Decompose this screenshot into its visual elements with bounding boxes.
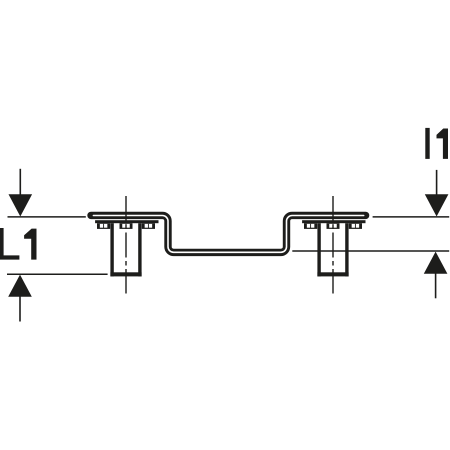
label L1 xyxy=(0,228,19,260)
dimension line upper right xyxy=(373,216,450,218)
left centerline xyxy=(125,196,127,294)
dimension line lower right xyxy=(292,250,449,252)
arrow upper right (down) xyxy=(436,170,438,196)
left connector tab right xyxy=(142,223,155,229)
left connector tab left xyxy=(97,223,110,229)
right connector tab centre xyxy=(327,223,340,229)
dimension line lower left xyxy=(7,273,108,275)
arrow lower right (up) xyxy=(435,272,437,299)
right connector tab left xyxy=(304,223,317,229)
right centerline xyxy=(332,196,334,294)
arrow upper left (down) xyxy=(19,169,21,196)
dimension line upper left xyxy=(8,216,86,218)
left connector flange xyxy=(95,220,158,223)
rail (bent sheet-metal strip) outer xyxy=(91,215,366,252)
label I1 xyxy=(425,128,429,159)
rail inner white line xyxy=(93,216,363,253)
right connector flange xyxy=(302,220,365,223)
left connector cylinder xyxy=(110,223,113,276)
right connector tab right xyxy=(349,223,362,229)
left connector tab centre xyxy=(120,223,133,229)
arrow lower left (up) xyxy=(19,295,21,322)
right connector cylinder xyxy=(317,223,320,276)
